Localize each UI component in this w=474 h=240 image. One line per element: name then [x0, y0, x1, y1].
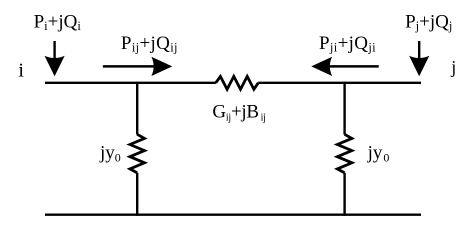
svg-text:Pj+jQj: Pj+jQj	[405, 11, 452, 33]
wire left shunt lower	[136, 173, 138, 216]
arrow Pi injection (down)	[45, 41, 65, 76]
node i label	[18, 60, 24, 82]
svg-text:Pji+jQji: Pji+jQji	[319, 33, 376, 55]
svg-text:Gij+jB ij: Gij+jB ij	[212, 102, 265, 124]
label Pji+jQji	[319, 33, 376, 55]
svg-text:i: i	[18, 60, 24, 82]
svg-text:jy 0: jy 0	[367, 143, 390, 165]
label Gij+jBij	[212, 102, 265, 124]
resistor Gij+jBij zigzag	[216, 76, 258, 89]
label jy0 left	[99, 143, 121, 165]
resistor jy0 right zigzag	[337, 134, 352, 173]
svg-text:jy0: jy0	[99, 143, 121, 165]
wire top bus right segment	[258, 82, 421, 84]
label Pj+jQj	[405, 11, 452, 33]
label Pi+jQi	[34, 11, 82, 33]
svg-text:j: j	[450, 57, 456, 77]
node j label	[450, 57, 456, 77]
resistor jy0 left zigzag	[130, 134, 145, 173]
wire top bus left segment	[45, 82, 216, 84]
wire left shunt upper	[136, 82, 138, 135]
label jy0 right	[367, 143, 390, 165]
wire bottom bus	[45, 214, 421, 216]
wire right shunt lower	[343, 173, 345, 216]
arrow Pji flow (left)	[311, 57, 378, 76]
wire right shunt upper	[343, 82, 345, 135]
label Pij+jQij	[121, 33, 178, 55]
arrow Pj injection (down)	[409, 41, 429, 76]
svg-text:Pi+jQi: Pi+jQi	[34, 11, 82, 33]
arrow Pij flow (right)	[103, 57, 172, 76]
svg-text:Pij+jQij: Pij+jQij	[121, 33, 178, 55]
